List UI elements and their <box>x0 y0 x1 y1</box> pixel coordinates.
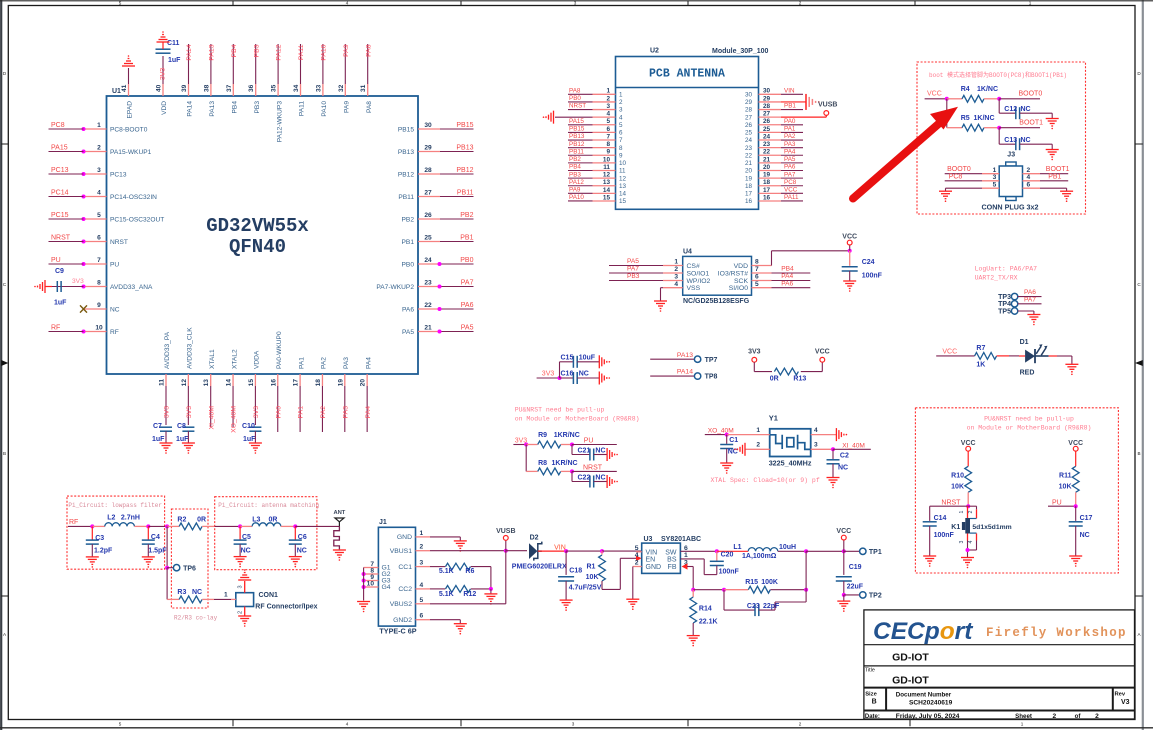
title block frame <box>864 610 1135 719</box>
regulator U3 SY8201ABC body <box>642 543 681 573</box>
resistor R3 NC <box>166 568 168 600</box>
ground right of C16 <box>598 372 600 385</box>
svg-text:PC14-OSC32IN: PC14-OSC32IN <box>110 194 157 201</box>
svg-text:NC: NC <box>728 449 738 456</box>
svg-text:9: 9 <box>97 302 101 309</box>
svg-text:on Module or MotherBoard (R9&R: on Module or MotherBoard (R9&R8) <box>967 424 1092 431</box>
svg-text:TP1: TP1 <box>869 549 882 556</box>
Y1 pin 2 to ground sideways <box>745 448 770 450</box>
test point TP6 branch <box>166 526 168 567</box>
svg-text:PA6: PA6 <box>781 280 793 287</box>
svg-text:C7: C7 <box>153 423 162 430</box>
ground below J3 pin6 <box>1060 190 1073 192</box>
svg-text:24: 24 <box>745 137 753 144</box>
svg-text:16: 16 <box>745 198 753 205</box>
svg-text:C22: C22 <box>578 475 591 482</box>
capacitor C1 NC <box>726 435 728 444</box>
right border mid arrow <box>1135 360 1143 366</box>
svg-text:GND2: GND2 <box>393 617 412 624</box>
R2 R3 co-lay dashed box <box>171 509 208 608</box>
svg-text:PA6: PA6 <box>1024 289 1036 296</box>
svg-text:BOOT1: BOOT1 <box>1046 166 1070 173</box>
boot mode select dashed box <box>917 62 1086 214</box>
svg-text:5: 5 <box>635 545 639 552</box>
svg-text:PA2: PA2 <box>784 133 796 140</box>
capacitor C23 22pF <box>723 590 725 610</box>
J1 pin1 GND to ground <box>430 536 460 538</box>
svg-text:PC14: PC14 <box>51 189 69 196</box>
capacitor C21 NC <box>571 445 573 455</box>
svg-text:3: 3 <box>959 541 965 544</box>
svg-text:R8: R8 <box>538 460 547 467</box>
svg-text:3: 3 <box>574 1 577 6</box>
svg-text:0R: 0R <box>770 375 779 382</box>
svg-text:PMEG6020ELRX: PMEG6020ELRX <box>512 563 567 570</box>
svg-text:22pF: 22pF <box>763 603 780 610</box>
svg-text:10: 10 <box>603 156 611 163</box>
svg-text:V3: V3 <box>1121 699 1130 706</box>
svg-text:8: 8 <box>97 279 101 286</box>
antenna matching dashed box <box>215 497 317 570</box>
svg-text:26: 26 <box>745 122 753 129</box>
ground below R14 <box>687 635 700 637</box>
svg-text:D2: D2 <box>530 535 539 542</box>
ground left of C9 <box>45 286 52 288</box>
svg-text:BOOT0: BOOT0 <box>947 166 971 173</box>
svg-text:PB15: PB15 <box>398 126 414 133</box>
svg-text:PB4: PB4 <box>781 266 794 273</box>
svg-text:C15: C15 <box>561 354 574 361</box>
svg-text:16: 16 <box>270 379 277 387</box>
svg-text:NRST: NRST <box>51 234 71 241</box>
resistor R10 10K <box>965 466 972 492</box>
svg-text:PA7: PA7 <box>784 171 796 178</box>
feedback node wires <box>692 567 694 590</box>
svg-text:6: 6 <box>755 274 759 281</box>
CON1 pin 1 <box>231 598 236 600</box>
svg-text:1: 1 <box>1021 721 1024 726</box>
svg-text:NC/GD25B128ESFG: NC/GD25B128ESFG <box>683 298 750 305</box>
svg-text:PCB ANTENNA: PCB ANTENNA <box>649 68 725 81</box>
svg-text:24: 24 <box>424 257 432 264</box>
svg-text:ANT: ANT <box>333 510 345 516</box>
svg-text:PA11: PA11 <box>298 44 305 60</box>
capacitor C11 1uF on VDD pin 40 <box>162 56 164 84</box>
svg-text:R4: R4 <box>961 86 970 93</box>
svg-text:1: 1 <box>674 259 678 266</box>
svg-text:PU&NRST need be pull-up: PU&NRST need be pull-up <box>984 416 1074 423</box>
svg-text:17: 17 <box>293 379 300 387</box>
svg-text:6: 6 <box>619 130 623 137</box>
svg-text:1uF: 1uF <box>152 436 165 443</box>
svg-text:PA11: PA11 <box>784 194 799 201</box>
svg-text:0R: 0R <box>197 516 206 523</box>
svg-text:TP3: TP3 <box>998 294 1011 301</box>
svg-text:100K: 100K <box>761 579 778 586</box>
svg-text:8: 8 <box>606 141 610 148</box>
ground above C11 <box>162 42 164 49</box>
svg-text:33: 33 <box>315 84 322 92</box>
svg-text:J1: J1 <box>379 519 387 526</box>
svg-text:PA8: PA8 <box>366 101 373 113</box>
svg-text:B: B <box>3 451 6 456</box>
svg-text:RF Connector/Ipex: RF Connector/Ipex <box>255 604 317 611</box>
power symbol VUSB on U2 pin 29 <box>781 101 806 103</box>
resistor R15 100K <box>724 589 748 591</box>
svg-text:2: 2 <box>799 1 802 6</box>
svg-text:2: 2 <box>97 144 101 151</box>
svg-text:PA5: PA5 <box>627 258 639 265</box>
svg-text:8: 8 <box>619 145 623 152</box>
svg-text:3225_40MHz: 3225_40MHz <box>769 459 812 468</box>
svg-text:39: 39 <box>181 84 188 92</box>
svg-text:L2: L2 <box>107 515 115 522</box>
flash U4 NC/GD25B128ESFG body <box>683 256 752 295</box>
svg-text:1uF: 1uF <box>168 57 181 64</box>
svg-text:VIN: VIN <box>554 544 566 551</box>
svg-text:Y1: Y1 <box>769 414 778 423</box>
svg-text:23: 23 <box>424 279 432 286</box>
svg-text:Size: Size <box>865 692 877 698</box>
svg-text:K1: K1 <box>951 524 960 531</box>
svg-text:PU&NRST need be pull-up: PU&NRST need be pull-up <box>515 407 605 414</box>
resistor R2 0R <box>167 525 179 527</box>
svg-text:PA4: PA4 <box>781 273 793 280</box>
svg-text:3: 3 <box>814 442 818 449</box>
svg-text:PB1: PB1 <box>460 234 473 241</box>
capacitor C4 1.5pF <box>147 526 149 540</box>
svg-text:27: 27 <box>745 114 753 121</box>
svg-text:4: 4 <box>420 582 424 589</box>
svg-text:B: B <box>1137 451 1140 456</box>
svg-text:13: 13 <box>619 183 627 190</box>
svg-text:20: 20 <box>360 379 367 387</box>
svg-text:PB4: PB4 <box>232 101 239 114</box>
svg-text:2: 2 <box>968 511 974 514</box>
svg-text:C8: C8 <box>177 423 186 430</box>
resistor R5 1K/NC <box>946 99 948 128</box>
svg-text:NC: NC <box>1021 106 1031 113</box>
svg-text:PA6: PA6 <box>461 302 474 309</box>
svg-text:PA4: PA4 <box>365 357 372 369</box>
svg-text:RF: RF <box>69 519 78 526</box>
svg-text:PA0-WKUP0: PA0-WKUP0 <box>276 331 283 369</box>
svg-text:34: 34 <box>293 84 300 92</box>
svg-text:PB2: PB2 <box>460 212 473 219</box>
svg-text:PB4: PB4 <box>569 164 581 171</box>
svg-text:VCC: VCC <box>927 91 942 98</box>
svg-text:2: 2 <box>1027 167 1031 174</box>
svg-text:NRST: NRST <box>583 465 603 472</box>
capacitor C24 100nF <box>849 251 851 266</box>
svg-text:C23: C23 <box>747 603 760 610</box>
svg-text:CON1: CON1 <box>259 592 279 599</box>
test point TP2 <box>844 594 860 596</box>
svg-text:PA7: PA7 <box>627 266 639 273</box>
svg-text:PA13: PA13 <box>209 101 216 117</box>
svg-text:7: 7 <box>755 266 759 273</box>
svg-text:4: 4 <box>606 111 610 118</box>
svg-text:20: 20 <box>745 168 753 175</box>
ground below C8 <box>182 442 195 444</box>
svg-text:QFN40: QFN40 <box>229 236 286 258</box>
svg-text:3V3: 3V3 <box>160 68 167 80</box>
svg-text:C9: C9 <box>55 268 64 275</box>
svg-text:Module_30P_100: Module_30P_100 <box>712 48 769 55</box>
svg-text:21: 21 <box>763 156 771 163</box>
svg-text:17: 17 <box>745 191 753 198</box>
svg-text:10K: 10K <box>586 574 599 581</box>
svg-text:PC8-BOOT0: PC8-BOOT0 <box>110 126 148 133</box>
svg-text:30: 30 <box>763 88 771 95</box>
svg-text:1.5pF: 1.5pF <box>148 547 167 554</box>
svg-text:FB: FB <box>668 564 677 571</box>
capacitor C16 NC <box>560 377 574 379</box>
svg-text:9: 9 <box>619 152 623 159</box>
svg-text:3: 3 <box>674 274 678 281</box>
svg-text:PA12: PA12 <box>569 179 584 186</box>
ground below C10 <box>249 442 262 444</box>
svg-text:2: 2 <box>1095 713 1099 720</box>
svg-text:5.1K: 5.1K <box>439 591 454 598</box>
svg-text:B: B <box>872 698 877 705</box>
svg-text:2: 2 <box>420 544 424 551</box>
svg-text:NC: NC <box>595 475 605 482</box>
net XI_40M at Y1 pin 3 <box>811 448 833 450</box>
svg-text:PC15-OSC32OUT: PC15-OSC32OUT <box>110 216 164 223</box>
switch K1 5d1x5d1mm <box>967 506 969 518</box>
svg-text:4: 4 <box>346 721 349 726</box>
svg-text:NC: NC <box>838 465 848 472</box>
svg-text:C21: C21 <box>578 448 591 455</box>
svg-text:4: 4 <box>968 541 974 544</box>
svg-text:1KR/NC: 1KR/NC <box>552 460 578 467</box>
svg-text:CC2: CC2 <box>398 586 412 593</box>
VCC output node <box>806 550 844 552</box>
svg-text:3: 3 <box>97 167 101 174</box>
svg-text:1KR/NC: 1KR/NC <box>554 432 580 439</box>
mcu U1 GD32VW55x QFN40 body <box>107 96 419 374</box>
svg-text:R1: R1 <box>586 563 595 570</box>
svg-text:PA15: PA15 <box>51 144 68 151</box>
svg-text:5: 5 <box>119 1 122 6</box>
svg-text:Pi_Circuit: antenna matching: Pi_Circuit: antenna matching <box>218 502 319 509</box>
test point TP1 <box>844 550 860 552</box>
svg-text:PA10: PA10 <box>569 194 584 201</box>
ground below C24 <box>849 271 851 281</box>
svg-text:1: 1 <box>993 167 997 174</box>
svg-text:30: 30 <box>745 92 753 99</box>
ground below R6 R12 node <box>490 589 492 594</box>
ground below antenna <box>333 549 346 551</box>
resistor R12 5.1K on CC2 <box>430 588 445 590</box>
svg-text:PB0: PB0 <box>460 257 473 264</box>
svg-text:2: 2 <box>619 99 623 106</box>
left border mid arrow <box>1 360 8 366</box>
resistor R8 1KR/NC <box>525 445 527 472</box>
svg-text:XI_40M: XI_40M <box>208 406 215 430</box>
svg-text:C6: C6 <box>298 534 307 541</box>
svg-text:C12: C12 <box>1004 106 1017 113</box>
svg-text:PA6: PA6 <box>402 306 414 313</box>
svg-text:PB15: PB15 <box>569 126 585 133</box>
svg-text:3V3: 3V3 <box>253 406 260 418</box>
svg-text:NRST: NRST <box>941 499 961 506</box>
ground below C7 <box>160 442 173 444</box>
svg-text:R10: R10 <box>951 473 964 480</box>
svg-text:VIN: VIN <box>784 88 795 95</box>
svg-text:10: 10 <box>619 160 627 167</box>
svg-text:3: 3 <box>238 585 244 588</box>
svg-text:TP2: TP2 <box>869 592 882 599</box>
resistor R11 10K <box>1072 466 1079 492</box>
svg-text:TP4: TP4 <box>998 301 1011 308</box>
CON1 pin 3 to ground above <box>244 581 246 593</box>
svg-text:1: 1 <box>619 92 623 99</box>
svg-text:5: 5 <box>97 212 101 219</box>
svg-text:TP7: TP7 <box>705 357 718 364</box>
svg-text:14: 14 <box>619 191 627 198</box>
svg-text:BS: BS <box>667 556 677 563</box>
svg-text:SCK: SCK <box>734 278 748 285</box>
svg-text:GD-IOT: GD-IOT <box>892 652 929 664</box>
power VCC right of R13 <box>820 357 825 362</box>
svg-text:VCC: VCC <box>842 234 857 241</box>
svg-text:GND: GND <box>646 564 662 571</box>
junction node before R2 <box>165 524 169 528</box>
svg-text:GD-IOT: GD-IOT <box>892 675 929 687</box>
svg-text:1uF: 1uF <box>54 300 67 307</box>
svg-text:4: 4 <box>814 427 818 434</box>
svg-text:PA14: PA14 <box>677 369 693 376</box>
svg-text:D1: D1 <box>1020 339 1029 346</box>
svg-text:2: 2 <box>635 560 639 567</box>
svg-text:VCC: VCC <box>784 187 798 194</box>
CON1 pin 2 to ground below <box>244 607 246 617</box>
svg-text:5: 5 <box>420 597 424 604</box>
svg-text:PB13: PB13 <box>456 144 473 151</box>
ground below C19 <box>843 595 845 601</box>
svg-text:PU: PU <box>51 257 61 264</box>
U3 VIN pin wire <box>636 551 642 553</box>
capacitor C15 10uF <box>559 362 561 378</box>
svg-text:J3: J3 <box>1007 152 1015 159</box>
svg-text:AVDD33_PA: AVDD33_PA <box>164 331 171 369</box>
svg-text:6: 6 <box>97 234 101 241</box>
svg-text:1K/NC: 1K/NC <box>977 86 998 93</box>
svg-text:PA8: PA8 <box>365 44 372 57</box>
J3 wires nets BOOT0 PC8 gnd <box>945 173 982 175</box>
ground below TP5 <box>1027 314 1040 316</box>
svg-text:PB3: PB3 <box>627 273 640 280</box>
svg-text:SO/IO1: SO/IO1 <box>687 270 710 277</box>
svg-text:VDDA: VDDA <box>254 350 261 369</box>
svg-text:LogUart: PA6/PA7: LogUart: PA6/PA7 <box>975 266 1038 273</box>
svg-text:PA9: PA9 <box>343 44 350 57</box>
svg-text:2: 2 <box>674 266 678 273</box>
svg-text:XTAL2: XTAL2 <box>231 349 238 369</box>
svg-text:C14: C14 <box>934 515 947 522</box>
svg-text:PA7-WKUP2: PA7-WKUP2 <box>376 284 414 291</box>
svg-text:100nF: 100nF <box>862 273 883 280</box>
net NRST <box>572 470 617 472</box>
svg-text:NC: NC <box>192 589 202 596</box>
svg-text:4: 4 <box>97 189 101 196</box>
svg-text:18: 18 <box>315 379 322 387</box>
svg-text:1: 1 <box>756 427 760 434</box>
net VIN <box>538 550 566 552</box>
svg-text:4: 4 <box>1027 174 1031 181</box>
svg-text:38: 38 <box>203 84 210 92</box>
svg-text:31: 31 <box>360 84 367 92</box>
J1 GND2 to ground <box>430 619 460 621</box>
svg-text:PA2: PA2 <box>320 406 327 419</box>
ground below C18 <box>560 599 573 601</box>
ground below C4 <box>142 556 155 558</box>
svg-text:NC: NC <box>595 448 605 455</box>
svg-text:PA5: PA5 <box>784 156 796 163</box>
svg-text:VIN: VIN <box>646 549 658 556</box>
svg-text:25: 25 <box>745 130 753 137</box>
ground on U4 VSS pin4 <box>661 287 664 289</box>
svg-text:TP5: TP5 <box>998 308 1011 315</box>
svg-text:1.2pF: 1.2pF <box>94 547 113 554</box>
svg-text:C18: C18 <box>569 567 582 574</box>
svg-text:CONN PLUG 3x2: CONN PLUG 3x2 <box>981 203 1038 212</box>
ground below C3 <box>86 556 99 558</box>
svg-text:PU: PU <box>1052 499 1062 506</box>
VCC wire to U4 VDD <box>771 251 773 266</box>
test point TP8 net PA14 <box>650 375 694 377</box>
svg-text:NC: NC <box>241 547 251 554</box>
svg-text:3: 3 <box>572 721 575 726</box>
capacitor C17 NC <box>1075 506 1077 521</box>
svg-text:PA3: PA3 <box>342 406 349 419</box>
svg-text:U1: U1 <box>112 88 121 95</box>
ground below G trunk <box>357 601 370 603</box>
svg-text:R3: R3 <box>177 589 186 596</box>
svg-text:CS#: CS# <box>687 263 700 270</box>
svg-text:PA11: PA11 <box>299 101 306 116</box>
inductor L2 2.7nH <box>92 525 105 527</box>
svg-text:10K: 10K <box>1059 484 1072 491</box>
svg-text:PA4: PA4 <box>365 406 372 419</box>
svg-text:XI_40M: XI_40M <box>842 443 865 450</box>
svg-text:23: 23 <box>745 145 753 152</box>
wire to antenna <box>295 525 339 527</box>
svg-text:NRST: NRST <box>569 103 586 110</box>
svg-text:PA10: PA10 <box>321 44 328 60</box>
J1 VBUS1 wire to VUSB node <box>430 550 506 552</box>
lowpass filter dashed box <box>67 496 165 569</box>
svg-text:TYPE-C 6P: TYPE-C 6P <box>379 627 416 636</box>
J3 right nets BOOT1 PB1 gnd <box>1040 173 1068 175</box>
svg-text:11: 11 <box>619 168 626 175</box>
capacitor C13 NC <box>998 128 1000 145</box>
ground below C13 <box>1051 144 1053 149</box>
svg-text:1: 1 <box>97 122 101 129</box>
svg-text:R2: R2 <box>177 516 186 523</box>
svg-text:5d1x5d1mm: 5d1x5d1mm <box>972 524 1011 531</box>
svg-text:27: 27 <box>763 111 771 118</box>
svg-text:PB3: PB3 <box>254 101 261 114</box>
capacitor C19 22uF <box>843 551 845 575</box>
capacitor C12 NC <box>998 99 1000 113</box>
svg-text:Firefly Workshop: Firefly Workshop <box>986 626 1127 640</box>
svg-text:PB1: PB1 <box>402 239 415 246</box>
svg-text:14: 14 <box>226 379 233 387</box>
PU NRST pull-up dashed box <box>915 408 1118 573</box>
